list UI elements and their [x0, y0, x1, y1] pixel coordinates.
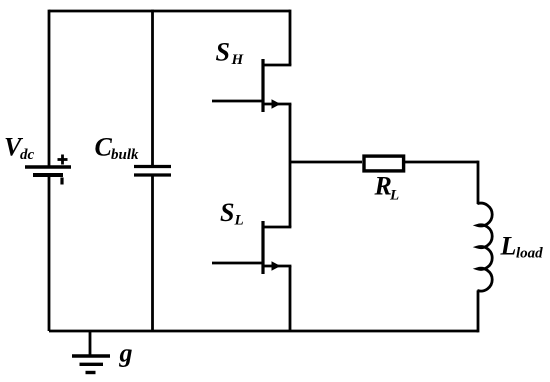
label R_L [374, 172, 400, 204]
wire S_H drain vertical [289, 10, 292, 65]
transistor S_L channel bar [261, 221, 264, 274]
svg-text:H: H [231, 52, 245, 68]
battery minus mark [60, 178, 63, 185]
wire S_H source lead [263, 103, 291, 106]
label S_L [220, 198, 244, 229]
battery V_dc positive plate [25, 165, 71, 169]
svg-text:dc: dc [20, 147, 35, 163]
wire right vertical upper [477, 161, 480, 204]
transistor S_H channel bar [261, 59, 264, 112]
wire left vertical (Vdc branch lower) [48, 175, 51, 331]
wire S_L source lead [263, 265, 291, 268]
svg-text:S: S [216, 38, 230, 67]
svg-text:load: load [516, 246, 543, 262]
wire S_H drain tap [263, 64, 291, 67]
wire S_H gate lead [212, 100, 263, 103]
svg-text:L: L [234, 213, 244, 229]
label L_load [500, 232, 544, 262]
inductor L_load coil [477, 203, 492, 291]
capacitor C_bulk bottom plate [134, 173, 171, 176]
label C_bulk [95, 133, 140, 164]
resistor R_L body [364, 156, 404, 171]
wire S_L gate lead [212, 262, 263, 265]
wire right vertical lower [477, 290, 480, 332]
svg-text:bulk: bulk [111, 147, 139, 163]
wire midpoint vertical [289, 104, 292, 227]
wire S_L drain tap [263, 226, 291, 229]
transistor S_H arrow [272, 99, 281, 109]
ground bar 2 [80, 363, 104, 366]
label S_H [216, 38, 245, 69]
svg-text:S: S [220, 198, 234, 227]
ground stem [89, 331, 92, 356]
wire top rail [49, 10, 290, 13]
ground bar 3 [86, 371, 96, 374]
wire C_bulk branch lower [151, 175, 154, 331]
wire bottom rail [49, 330, 478, 333]
label V_dc [4, 133, 35, 164]
capacitor C_bulk top plate [134, 165, 171, 168]
svg-text:L: L [500, 232, 517, 261]
ground bar 1 [72, 354, 110, 357]
wire midpoint to resistor [290, 161, 362, 164]
wire S_L source vertical [289, 266, 292, 331]
svg-text:L: L [389, 188, 399, 204]
wire C_bulk branch upper [151, 10, 154, 167]
battery V_dc negative plate [33, 173, 63, 177]
wire left vertical (Vdc branch upper) [48, 10, 51, 167]
svg-text:g: g [119, 339, 133, 368]
transistor S_L arrow [272, 261, 281, 271]
wire resistor to corner [405, 161, 478, 164]
battery plus sign [58, 155, 68, 165]
svg-text:C: C [95, 133, 113, 162]
